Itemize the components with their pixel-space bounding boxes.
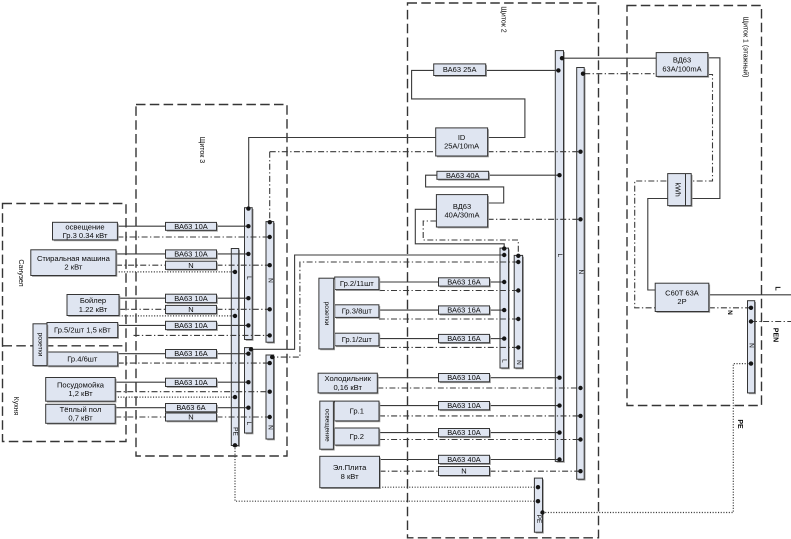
wire N Гр.5/2шт to N bus: [134, 334, 270, 336]
svg-text:Щиток 3: Щиток 3: [198, 137, 205, 164]
wire N-pole тёплый пол to N bus: [217, 416, 270, 418]
svg-text:ВА63 40А: ВА63 40А: [447, 455, 481, 464]
wire L breaker освещение to L bus: [217, 225, 249, 227]
breaker N-pole (бойлер): [166, 305, 218, 315]
wire L breaker Гр.3/8шт to bus: [490, 309, 505, 311]
bus L розетки (Щиток 2): [500, 248, 510, 369]
svg-text:Гр.4/6шт: Гр.4/6шт: [67, 355, 98, 364]
breaker ВА63 16А (Гр.3/8шт): [439, 306, 491, 316]
breaker ВА63 16А (Гр.4/6шт): [166, 349, 218, 359]
wire N освещение to N bus: [117, 236, 269, 238]
group label розетки (кухня): [33, 324, 48, 367]
svg-text:2Р: 2Р: [677, 297, 686, 306]
svg-text:Щиток 1 (этажный): Щиток 1 (этажный): [742, 17, 750, 78]
wire N Эл.Плита to N-pole: [380, 470, 439, 472]
wire L бойлер to breaker: [119, 297, 166, 299]
load Бойлер: [67, 295, 120, 317]
svg-text:Щиток 2: Щиток 2: [500, 6, 507, 33]
wire N-pole стиральная машина to N bus: [217, 264, 270, 266]
wire PE Щ3 to Щ2: [235, 446, 538, 502]
junction dots: [560, 56, 564, 60]
wire N стиральная машина to N-pole: [116, 264, 166, 266]
wire N посудомойка to N bus: [115, 391, 270, 393]
main breaker C60T 63А 2Р: [655, 283, 710, 313]
svg-text:1.22 кВт: 1.22 кВт: [79, 305, 108, 314]
wire PE стиральная машина: [116, 271, 235, 273]
svg-text:Гр.5/2шт 1,5 кВт: Гр.5/2шт 1,5 кВт: [54, 326, 111, 335]
svg-text:N: N: [748, 343, 755, 348]
svg-text:N: N: [266, 425, 273, 430]
wire L Эл.Плита to breaker: [380, 459, 439, 461]
svg-text:Стиральная машина: Стиральная машина: [37, 254, 111, 263]
svg-text:Посудомойка: Посудомойка: [57, 381, 105, 390]
wire N ID down to Щ3 N bus: [269, 152, 271, 222]
RCD ВД63 40А/30mA: [436, 195, 489, 229]
wire N ВД63 40/30 in from N bus: [488, 218, 581, 220]
wire N Гр.1/2шт to N bus: [379, 346, 518, 348]
load Тёплый пол: [46, 404, 117, 424]
breaker N-pole (эл.плита): [439, 467, 491, 477]
wire L breaker Гр.4/6шт to L bus: [217, 353, 249, 355]
wire ВА63 25А left loop to ID: [412, 70, 525, 137]
bus N/PEN (Щиток 1): [748, 301, 757, 395]
wire L Гр.2/11шт to breaker: [379, 281, 439, 283]
svg-text:Тёплый пол: Тёплый пол: [60, 405, 102, 414]
svg-text:N: N: [266, 278, 273, 283]
wire N C60T to PEN bus: [709, 307, 751, 309]
panel box Щиток 2: [408, 3, 599, 538]
wire N ВД63 to C60T bypass kWh: [635, 75, 713, 308]
load Холодильник: [318, 373, 379, 394]
load Гр.4/6шт: [47, 352, 119, 367]
bus N lower segment (Щиток 3): [266, 355, 275, 440]
bus PE (Щиток 2): [534, 478, 543, 533]
svg-text:1,2 кВт: 1,2 кВт: [68, 389, 93, 398]
wire L Гр.1/2шт to breaker: [379, 338, 439, 340]
breaker ВА63 10А (бойлер): [166, 294, 218, 304]
wire PE бойлер: [119, 315, 235, 317]
wire ВД63 out to kWh: [691, 58, 720, 199]
wire L Гр.1 to breaker: [379, 405, 439, 407]
svg-text:Гр.2: Гр.2: [350, 432, 364, 441]
load Эл.Плита: [320, 456, 381, 489]
svg-text:ВА63 16А: ВА63 16А: [447, 334, 481, 343]
wire N ID to N bus: [270, 151, 581, 153]
svg-text:L: L: [245, 276, 252, 280]
breaker N-pole (тёплый пол): [166, 413, 218, 423]
breaker ВА63 10А (Гр.5/2шт): [166, 321, 218, 331]
load Гр.1: [335, 401, 381, 422]
svg-text:PE: PE: [736, 419, 743, 429]
svg-text:0,7 кВт: 0,7 кВт: [68, 414, 93, 423]
svg-text:N: N: [188, 261, 193, 270]
group label розетки (Щиток 2): [319, 278, 335, 350]
wire розетки N bus to Щ3 lower N bus: [272, 262, 519, 357]
svg-text:Бойлер: Бойлер: [80, 296, 106, 305]
svg-text:N: N: [188, 305, 193, 314]
wire PE Эл.Плита: [380, 486, 539, 488]
breaker ВА63 10А (посудомойка): [166, 378, 218, 388]
wire N Гр.1 to N bus: [379, 415, 581, 417]
group label освещение (Щиток 2): [320, 401, 335, 450]
wire supply L: [709, 294, 791, 296]
wire N-pole Эл.Плита to N bus: [490, 470, 581, 472]
svg-text:ВА63 10А: ВА63 10А: [174, 321, 208, 330]
wire L breaker Гр.1/2шт to bus: [490, 338, 505, 340]
bus N main (Щиток 2): [577, 68, 586, 481]
svg-text:kWh: kWh: [674, 183, 681, 197]
wire ВД63 40/30 out to розетки L bus: [415, 209, 504, 248]
bus PE (Щиток 3): [231, 249, 240, 447]
load Стиральная машина: [31, 250, 118, 277]
svg-text:ВА63 16А: ВА63 16А: [447, 278, 481, 287]
svg-text:Гр.2/11шт: Гр.2/11шт: [340, 279, 374, 288]
wire L breaker стиральная машина to L bus: [217, 253, 249, 255]
svg-text:N: N: [515, 360, 522, 365]
wire N-pole бойлер to N bus: [217, 308, 270, 310]
meter kWh: [668, 174, 693, 207]
wire ВА63 25А right to L bus: [486, 69, 559, 71]
wire L Гр.3/8шт to breaker: [379, 309, 439, 311]
breaker ВА63 40А (эл.плита): [439, 455, 491, 465]
wire L breaker посудомойка to L bus: [217, 381, 249, 383]
load Гр.3/8шт: [335, 305, 381, 319]
room box Санузел/Кухня: [3, 204, 127, 442]
wire L breaker тёплый пол to L bus: [217, 407, 249, 409]
wire L breaker Гр.2/11шт to bus: [490, 281, 505, 283]
svg-text:N: N: [461, 467, 466, 476]
load Гр.1/2шт: [335, 333, 381, 347]
wire N Холодильник to N bus: [377, 387, 580, 389]
svg-text:Гр.1/2шт: Гр.1/2шт: [342, 335, 373, 344]
wire N bus Щ2 to ВД63 Щ1: [584, 73, 656, 75]
wire L тёплый пол to breaker: [115, 407, 165, 409]
breaker ВА63 10А (Гр.1): [439, 401, 491, 411]
svg-text:63А/100mA: 63А/100mA: [662, 64, 701, 73]
svg-text:L: L: [245, 422, 252, 426]
bus L lower segment (Щиток 3): [245, 348, 254, 435]
svg-text:ВА63 10А: ВА63 10А: [174, 294, 208, 303]
wire N Гр.2 to N bus: [379, 439, 581, 441]
svg-text:Кухня: Кухня: [12, 397, 19, 416]
svg-text:ВА63 25А: ВА63 25А: [443, 65, 477, 74]
svg-text:ВА63 6А: ВА63 6А: [176, 403, 205, 412]
svg-text:Гр.3 0.34 кВт: Гр.3 0.34 кВт: [63, 231, 108, 240]
breaker ВА63 10А (Гр.2): [439, 428, 491, 438]
wire L breaker Гр.1 to bus: [490, 405, 560, 407]
svg-text:N: N: [577, 270, 584, 275]
svg-text:Санузел: Санузел: [17, 259, 24, 286]
wire N Гр.2/11шт to N bus: [379, 290, 518, 292]
wire ВА63 40А left loop to ВД63: [426, 175, 504, 203]
svg-text:ВА63 10А: ВА63 10А: [174, 222, 208, 231]
svg-text:ВА63 10А: ВА63 10А: [447, 373, 481, 382]
breaker N-pole (стиральная машина): [166, 261, 218, 271]
wire N тёплый пол to N-pole: [115, 416, 165, 418]
wire L стиральная машина to breaker: [116, 253, 166, 255]
load Гр.2/11шт: [335, 277, 381, 291]
breaker ВА63 16А (Гр.2/11шт): [439, 278, 491, 288]
svg-text:Гр.3/8шт: Гр.3/8шт: [342, 307, 373, 316]
svg-text:L: L: [556, 254, 563, 258]
wire L Гр.2 to breaker: [379, 432, 439, 434]
load Посудомойка: [46, 378, 117, 403]
RCD ID 25А/10mA: [436, 128, 489, 157]
wire N Гр.3/8шт to N bus: [379, 318, 518, 320]
svg-text:ВА63 10А: ВА63 10А: [447, 401, 481, 410]
svg-text:освещение: освещение: [65, 222, 104, 231]
wire L breaker Гр.5/2шт to L bus: [217, 324, 249, 326]
load Гр.2: [335, 428, 381, 446]
svg-text:N: N: [188, 413, 193, 422]
bus N upper segment (Щиток 3): [266, 222, 275, 344]
svg-text:L: L: [501, 359, 508, 363]
svg-text:ВА63 10А: ВА63 10А: [174, 378, 208, 387]
wire PE Щ2 to Щ1 PEN bus: [543, 364, 752, 513]
svg-text:ВА63 40А: ВА63 40А: [446, 171, 480, 180]
svg-text:PEN: PEN: [772, 328, 779, 342]
wire L breaker Холодильник to bus: [490, 377, 560, 379]
wire ID out to Щиток 3 L bus: [249, 138, 436, 208]
svg-text:8 кВт: 8 кВт: [341, 472, 359, 481]
svg-text:освещение: освещение: [323, 409, 330, 442]
svg-text:ВА63 16А: ВА63 16А: [174, 349, 208, 358]
svg-text:Эл.Плита: Эл.Плита: [333, 463, 367, 472]
svg-text:Холодильник: Холодильник: [324, 374, 371, 383]
bus N розетки (Щиток 2): [514, 255, 524, 369]
breaker ВА63 10А (Гр.3 освещение): [166, 222, 218, 232]
wire PEN supply: [751, 321, 791, 323]
wire kWh to C60T: [648, 199, 668, 291]
wire L освещение to breaker: [117, 225, 165, 227]
wire L breaker Эл.Плита to bus: [490, 459, 560, 461]
wire L Гр.5/2шт to breaker: [118, 324, 166, 326]
load освещение Гр.3: [53, 222, 119, 241]
breaker ВА63 10А (стиральная машина): [166, 250, 218, 260]
wire N ВД63 40/30 out to розетки N bus: [423, 221, 518, 255]
svg-text:PE: PE: [535, 515, 542, 524]
svg-text:0,16 кВт: 0,16 кВт: [333, 383, 362, 392]
svg-text:Гр.1: Гр.1: [350, 407, 364, 416]
svg-text:PE: PE: [232, 427, 239, 436]
svg-text:2 кВт: 2 кВт: [64, 263, 82, 272]
svg-text:25А/10mA: 25А/10mA: [444, 142, 479, 151]
breaker ВА63 25А (ввод Щ3): [434, 64, 487, 77]
wire ВА63 40А right to L bus: [489, 174, 560, 176]
svg-text:розетки: розетки: [37, 333, 44, 357]
panel box Щиток 1: [627, 6, 762, 406]
RCD ВД63 63А/100mA: [656, 53, 709, 78]
wire L bus Щ2 to ВД63 Щ1: [564, 57, 657, 59]
panel box Щиток 3: [136, 105, 287, 457]
wire L Гр.4/6шт to breaker: [118, 353, 166, 355]
bus L upper segment (Щиток 3): [245, 208, 254, 341]
breaker ВА63 16А (Гр.1/2шт): [439, 334, 491, 344]
svg-text:розетки: розетки: [323, 302, 330, 326]
wire PE посудомойка: [115, 396, 235, 398]
wire L breaker Гр.2 to bus: [490, 432, 560, 434]
wire N Гр.4/6шт to N bus: [118, 362, 270, 364]
svg-text:ВА63 10А: ВА63 10А: [174, 250, 208, 259]
svg-text:ВА63 10А: ВА63 10А: [447, 428, 481, 437]
load Гр.5/2шт: [47, 323, 119, 339]
breaker ВА63 6А (тёплый пол): [166, 403, 218, 413]
breaker ВА63 40А (розетки): [437, 171, 490, 181]
wire розетки L bus to Щ3 lower L bus: [250, 255, 504, 349]
svg-text:40А/30mA: 40А/30mA: [444, 211, 479, 220]
svg-text:N: N: [726, 310, 733, 315]
wire L Холодильник to breaker: [377, 377, 438, 379]
svg-text:L: L: [774, 286, 781, 291]
wire N бойлер to N-pole: [119, 308, 166, 310]
breaker ВА63 10А (холодильник): [439, 373, 491, 383]
wire L посудомойка to breaker: [115, 381, 165, 383]
room divider Санузел/Кухня: [3, 345, 127, 347]
svg-text:ВА63 16А: ВА63 16А: [447, 306, 481, 315]
wire L breaker бойлер to L bus: [217, 297, 249, 299]
bus L main (Щиток 2): [555, 51, 565, 463]
